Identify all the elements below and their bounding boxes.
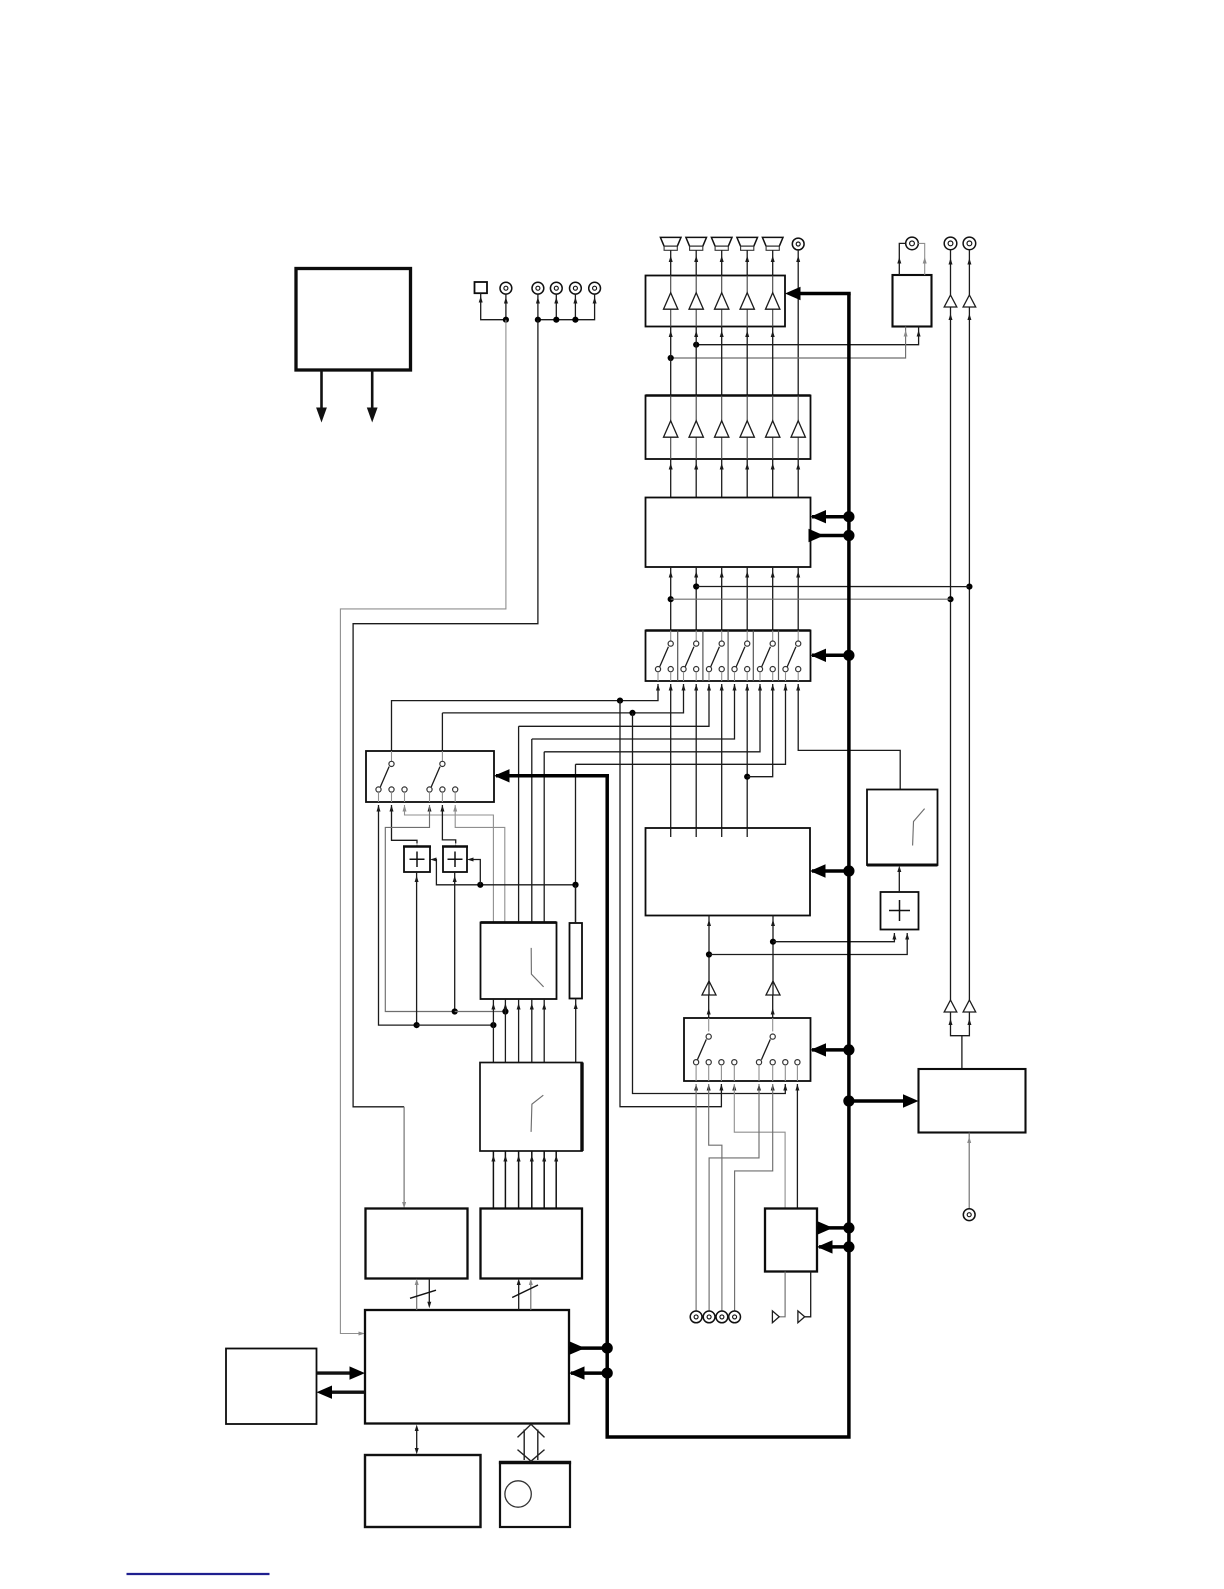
wire front L tap to U10 — [696, 327, 918, 345]
wire A3 A4 join to rec box — [951, 1012, 970, 1036]
rec output box U12 — [919, 1069, 1026, 1133]
SW1 pair2 input arrows — [682, 684, 686, 691]
headphone jack — [906, 237, 919, 250]
node J3 — [535, 317, 541, 323]
wire node to J3 — [537, 294, 539, 320]
wire into bar — [575, 885, 577, 923]
wire J3 long run to display box — [353, 320, 538, 1107]
optical connector OP1 — [772, 1311, 779, 1323]
wire driver3 to PA1 — [721, 327, 723, 396]
node sel2 tap — [693, 583, 699, 589]
wire SW3 c6 to coax4 — [735, 1084, 773, 1311]
wire U11 to optical1 — [779, 1272, 785, 1317]
node adc L tap — [706, 951, 712, 957]
wire SW3 c5 to coax2 — [709, 1084, 759, 1311]
wire monitor R to SW3 — [633, 713, 786, 1094]
wire vol2 to U2 — [695, 459, 697, 498]
coax jack D1 — [690, 1311, 702, 1323]
wire adc L to U7 — [708, 916, 710, 996]
bus arrow into U7 — [812, 869, 849, 873]
PA1 amp stage 3 — [721, 276, 723, 293]
wire ch4 to dsp — [746, 684, 748, 837]
wire front R tap to U10 — [671, 327, 906, 359]
SW1 pair5 input arrows — [758, 684, 762, 691]
PS1 output arrow 1 — [320, 370, 323, 409]
node CD-R tap — [966, 584, 972, 590]
bus slash left — [410, 1290, 436, 1298]
rec out jack — [963, 1209, 975, 1221]
wire feedback to U5 — [470, 860, 480, 885]
SW1 cell divider — [752, 631, 754, 682]
bus arrow into PA1 — [798, 292, 851, 296]
arrow U17 to U16 — [317, 1371, 353, 1374]
node front R tap — [668, 355, 674, 361]
system control box U16 — [365, 1310, 569, 1424]
wire vol5 to U2 — [772, 459, 774, 498]
connector J1 (square jack) — [475, 282, 488, 293]
node feedback U5 branch — [477, 882, 483, 888]
wire U10 to phones R — [918, 243, 924, 275]
U7 input stubs — [671, 828, 748, 837]
adc amp B2 — [766, 981, 780, 995]
node dac col1 — [502, 1008, 508, 1014]
wire A1 down — [950, 307, 952, 1000]
wire vol6 to U2 — [797, 459, 799, 498]
wire U10 to phones L — [899, 243, 905, 275]
node front L tap — [693, 342, 699, 348]
U2 amp stage 6 — [797, 396, 799, 421]
U8 curve icon — [913, 809, 925, 846]
wire sub pre-out — [797, 250, 799, 396]
buffer amp A3 — [944, 1000, 957, 1012]
U2 amp stage 3 — [721, 396, 723, 421]
PS1 output arrow 2 — [371, 370, 374, 409]
wire ch3 to dsp — [721, 684, 723, 837]
wire driver2 to PA1 — [695, 327, 697, 396]
wire node to J4 — [555, 294, 557, 320]
wire sel5 to U3 — [772, 567, 774, 641]
dsp2 box U13 — [480, 1063, 582, 1152]
SW1 switch 1 — [670, 631, 672, 642]
PA1 amp stage 1 — [670, 276, 672, 293]
node feedback source — [572, 882, 578, 888]
driver stage block U2 — [646, 396, 811, 460]
node J2 — [503, 317, 509, 323]
wire U14 to U16 (down) — [428, 1279, 430, 1304]
bus arrow into U11 — [819, 1245, 849, 1249]
node dac col0 — [490, 1022, 496, 1028]
wire driver5 to PA1 — [772, 327, 774, 396]
wire tape play R to SW1 — [441, 713, 443, 764]
bus arrow into SW2 — [496, 774, 609, 778]
wire CD-R vertical — [968, 250, 970, 295]
wire U11 to optical2 — [805, 1272, 811, 1317]
wire join down to rec out box — [961, 1036, 963, 1069]
wire SW2 b2 to adder U5 — [442, 805, 455, 844]
headphone amp box U10 — [893, 275, 932, 327]
adder U5 — [443, 847, 467, 873]
wire U4 bottom input — [416, 872, 418, 1025]
jack J5 — [570, 282, 582, 294]
power amplifier block PA1 — [646, 276, 786, 327]
coax jack D4 — [729, 1311, 741, 1323]
wire dsp2 to U6 — [518, 999, 520, 1063]
wire surround bridge — [747, 684, 773, 777]
wire ch2 to dsp — [695, 684, 697, 837]
U19 circle — [505, 1481, 531, 1507]
wire ch1 to dsp — [670, 684, 672, 837]
electronic volume block U3 — [646, 498, 811, 568]
speaker SP3 — [711, 237, 732, 250]
wire SW3 c8 to digital box — [796, 1084, 798, 1209]
input jack CD-L — [944, 237, 957, 250]
rec selector SW3 — [684, 1018, 811, 1081]
node surround bridge — [744, 774, 750, 780]
wire U16 to U14 (up) — [416, 1284, 418, 1310]
U13 curve icon — [531, 1095, 543, 1132]
adder U9 — [881, 892, 919, 930]
d/a converter box U6 — [481, 923, 557, 1000]
wire SP5 to power amp — [772, 250, 774, 275]
SW3 switch — [772, 1018, 774, 1031]
bus arrow out of U11 — [817, 1226, 849, 1230]
speaker SP1 — [660, 237, 681, 250]
wire dac out2 to SW1 — [532, 684, 735, 739]
SW1 pair6 input arrows — [784, 684, 788, 691]
wire SW2 a1 to adder line — [379, 805, 417, 1025]
power supply block PS1 — [296, 269, 411, 371]
PA1 amp stage 2 — [695, 276, 697, 293]
SW3 switch — [708, 1018, 710, 1031]
SW2 switch — [391, 751, 393, 761]
jack J6 — [589, 282, 601, 294]
SW1 switch 3 — [721, 631, 723, 642]
hollow double arrow U16-U19 — [518, 1424, 545, 1461]
wire SP2 to power amp — [695, 250, 697, 275]
wire node to J2 — [505, 294, 507, 320]
digital interface box U11 — [765, 1209, 817, 1272]
bar element R1 — [570, 923, 583, 999]
wire adc R tap to U9 — [773, 933, 894, 942]
bus arrow into U12 — [849, 1099, 905, 1103]
optical connector OP2 — [798, 1311, 805, 1323]
SW1 cell divider — [677, 631, 679, 682]
wire U5 bottom input — [454, 872, 456, 1012]
wire dac out3 to SW1 — [544, 684, 760, 752]
wire adc L tap to U9 — [709, 933, 907, 955]
wire sel4 to U3 — [746, 567, 748, 641]
front panel box U17 — [226, 1349, 317, 1425]
wire U9 to U8 — [898, 869, 900, 893]
input selector block SW1 — [646, 631, 811, 682]
wire sel1 tap to CD-L line — [671, 598, 951, 600]
bus slash right — [512, 1285, 538, 1298]
wire sel3 to U3 — [721, 567, 723, 641]
coax jack D3 — [716, 1311, 728, 1323]
buffer amp A1 — [944, 295, 957, 307]
wire dsp2 to U6 — [492, 999, 494, 1063]
SW2 switch — [441, 751, 443, 761]
U2 amp stage 1 — [670, 396, 672, 421]
wire SW2 b1 to node line — [385, 805, 454, 1012]
SW1 switch 2 — [695, 631, 697, 642]
wire U16 to U15 a — [518, 1284, 520, 1310]
wire SW3 c1 to coax1 — [695, 1084, 697, 1311]
wire J1 to node — [481, 293, 506, 320]
PA1 amp stage 4 — [746, 276, 748, 293]
adc amp B1 — [702, 981, 716, 995]
jack J4 — [550, 282, 562, 294]
wire vol1 to U2 — [670, 459, 672, 498]
wire dac out4 to SW1 — [576, 684, 786, 764]
wire dsp2 to U6 — [531, 999, 533, 1063]
wire driver4 to PA1 — [746, 327, 748, 396]
node U4 line join — [414, 1022, 420, 1028]
wire rec sel R up — [772, 996, 774, 1035]
node bar feed — [572, 882, 578, 888]
wire SW2 a2 to adder U4 — [392, 805, 418, 844]
jack J2 — [500, 282, 512, 294]
wire line to dac col1 — [455, 1011, 506, 1013]
jack J3 — [532, 282, 544, 294]
node sel1 tap — [668, 596, 674, 602]
wire rec sel L up — [708, 996, 710, 1035]
bus arrow out of U16 — [569, 1346, 607, 1350]
input jack CD-R — [963, 237, 976, 250]
wire A2 down — [968, 307, 970, 1000]
wire tape play L to SW1 — [392, 684, 659, 764]
speaker SP2 — [686, 237, 707, 250]
wire SP3 to power amp — [721, 250, 723, 275]
SW1 switch 4 — [746, 631, 748, 642]
dsp block U7 — [646, 828, 811, 916]
remote sensor box U19 — [500, 1463, 570, 1528]
wire sel1 to U3 — [670, 567, 672, 641]
SW3 input arrows — [694, 1084, 698, 1091]
node monitor L — [617, 698, 623, 704]
display box U14 — [366, 1209, 468, 1279]
wire SW3 c2 to coax3 — [709, 1084, 722, 1311]
U2 amp stage 5 — [772, 396, 774, 421]
node J5 — [572, 317, 578, 323]
wire CD-L vertical — [950, 250, 952, 295]
U2 amp stage 4 — [746, 396, 748, 421]
wire dsp2 to bar — [575, 999, 577, 1063]
SW1 cell divider — [778, 631, 780, 682]
wire feedback to U4 — [433, 860, 576, 885]
SW1 cell divider — [702, 631, 704, 682]
wire sel2 to U3 — [695, 567, 697, 641]
node monitor R — [629, 710, 635, 716]
bus arrow into SW1 — [812, 654, 849, 658]
speaker SP4 — [737, 237, 758, 250]
node CD-L tap — [947, 596, 953, 602]
tone control box U8 — [867, 790, 938, 866]
PA1 amp stage 5 — [772, 276, 774, 293]
wire SW3 c4 to digital box — [734, 1084, 785, 1209]
subwoofer pre-out jack — [792, 238, 804, 250]
wire line to dac col0 — [417, 1024, 494, 1026]
adc box U15 — [481, 1209, 583, 1279]
adder U4 — [404, 847, 430, 873]
SW1 pair3 input arrows — [707, 684, 711, 691]
control bus main — [607, 294, 849, 1438]
wire sel2 tap to CD-R line — [696, 586, 969, 588]
memory box U18 — [365, 1455, 481, 1527]
SW2 input arrows — [377, 805, 381, 812]
wire dsp2 to U6 — [504, 999, 506, 1063]
wire node to J5 — [574, 294, 576, 320]
wire SW2 a3 gray to dac box — [405, 805, 494, 923]
wire dsp2 to U6 — [543, 999, 545, 1063]
wire SP4 to power amp — [746, 250, 748, 275]
SW1 pair4 input arrows — [733, 684, 737, 691]
wire monitor L to SW3 — [620, 701, 721, 1107]
wire ch6 to tone box — [798, 684, 900, 790]
bus arrow into U3 — [812, 515, 849, 519]
buffer amp A2 — [963, 295, 976, 307]
SW1 cell divider — [727, 631, 729, 682]
node U5 line join — [452, 1008, 458, 1014]
wire J2 long gray run to system box — [340, 320, 506, 1334]
footer rule — [127, 1573, 270, 1575]
bus arrow into U16 — [571, 1371, 607, 1375]
wire vol4 to U2 — [746, 459, 748, 498]
wire U12 to rec jack — [968, 1133, 970, 1209]
double arrow U16-U18 — [416, 1429, 418, 1451]
arrow U16 to U17 — [330, 1390, 365, 1393]
rec out selector SW2 — [366, 751, 494, 802]
SW1 switch 5 — [772, 631, 774, 642]
wire vol3 to U2 — [721, 459, 723, 498]
wire sel6 to U3 — [797, 567, 799, 641]
bus arrow into SW3 — [812, 1048, 849, 1052]
U2 amp stage 2 — [695, 396, 697, 421]
node J4 — [553, 317, 559, 323]
SW1 pair1 input arrows — [656, 684, 660, 691]
wire bus J3-J6 — [538, 294, 595, 320]
wire SP1 to power amp — [670, 250, 672, 275]
buffer amp A4 — [963, 1000, 976, 1012]
coax jack D2 — [703, 1311, 715, 1323]
wire adc R to U7 — [772, 916, 774, 996]
wire SW2 b3 gray to dac box — [455, 805, 505, 923]
speaker SP5 — [762, 237, 783, 250]
wire dac out1 to SW1 — [519, 684, 709, 726]
bus arrow out of U3 — [811, 534, 849, 538]
wire driver1 to PA1 — [670, 327, 672, 396]
wires adc box to U13 — [492, 1151, 494, 1209]
node adc R tap — [770, 939, 776, 945]
wire U16 to U15 b — [530, 1284, 532, 1310]
SW1 switch 6 — [797, 631, 799, 642]
U6 curve icon — [531, 948, 543, 987]
